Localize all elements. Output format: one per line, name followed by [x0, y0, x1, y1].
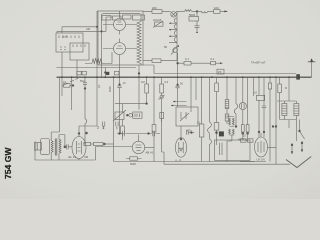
svg-text:TA: TA — [96, 126, 100, 129]
bottom rail left — [35, 151, 96, 160]
svg-text:0,1: 0,1 — [97, 84, 101, 88]
mains cord V — [286, 157, 311, 168]
resistor R9 — [160, 77, 164, 95]
trimmer C3 — [123, 15, 132, 19]
bottom rail lower — [164, 152, 290, 164]
wire coil top — [176, 11, 178, 16]
wire — [85, 52, 112, 64]
svg-text:U - P: U - P — [175, 159, 182, 163]
pot P1 — [113, 103, 148, 140]
wire — [268, 147, 277, 149]
output transformer T3 — [51, 139, 61, 156]
resistor R16 — [83, 142, 114, 145]
tube V3 — [132, 135, 154, 154]
wire — [62, 52, 77, 77]
wire squiggle — [234, 77, 237, 127]
lamp LA1 — [171, 12, 177, 18]
wire — [195, 77, 197, 100]
switch contacts — [59, 36, 79, 39]
trimmer C2 — [113, 16, 122, 20]
resistor R15 — [152, 77, 156, 161]
wire mains tap — [295, 120, 297, 142]
wire — [253, 77, 255, 96]
trimmer arrow — [153, 21, 163, 28]
resistor R12 — [257, 77, 265, 137]
choke L5 — [202, 11, 208, 13]
svg-text:4F7n: 4F7n — [238, 138, 244, 142]
svg-text:5000: 5000 — [130, 162, 136, 166]
tuner box S1 — [56, 33, 83, 52]
svg-text:5000: 5000 — [108, 86, 112, 92]
resistor R11 — [214, 77, 224, 145]
svg-text:0,1: 0,1 — [185, 57, 189, 61]
resistor R13 — [268, 77, 271, 161]
mains cord prongs — [291, 141, 303, 154]
tuner box S2 — [70, 43, 89, 60]
svg-text:UY 1N: UY 1N — [257, 158, 265, 162]
svg-text:TB: TB — [102, 125, 106, 129]
IF coil ladder — [225, 77, 229, 124]
antenna symbol — [308, 58, 316, 77]
rail R3 — [143, 65, 296, 74]
wire — [140, 14, 142, 65]
svg-text:AB 41: AB 41 — [146, 151, 154, 155]
svg-text:ZF: ZF — [218, 70, 222, 74]
tapped coil L3 — [169, 16, 177, 57]
heater ladder H1 — [277, 101, 299, 120]
bus nodes — [61, 76, 299, 78]
wire — [79, 77, 97, 126]
junction blob — [106, 72, 109, 75]
node — [104, 72, 106, 74]
resistor R17 — [126, 157, 141, 160]
rail R2 — [177, 62, 223, 64]
wire — [62, 27, 97, 33]
svg-text:1M: 1M — [141, 80, 145, 84]
resistor R2 — [152, 10, 162, 14]
resistor R14 — [278, 77, 282, 101]
switch contacts — [60, 47, 66, 50]
svg-text:EL 11: EL 11 — [69, 155, 77, 159]
switch contacts — [73, 45, 85, 48]
top rail wire — [143, 10, 228, 12]
capacitor C12 — [262, 77, 266, 137]
switch S3 — [85, 119, 88, 144]
wire — [65, 146, 67, 148]
bottom rail mid — [114, 161, 266, 163]
wire corner B — [102, 14, 104, 77]
svg-text:5000: 5000 — [189, 13, 196, 17]
wire — [71, 77, 73, 110]
svg-text:0,1: 0,1 — [197, 121, 201, 125]
wire — [240, 161, 255, 163]
svg-text:754 GW: 754 GW — [3, 147, 13, 179]
svg-text:50: 50 — [164, 45, 168, 49]
arrow to antenna — [225, 10, 228, 12]
electrolytic C11 — [239, 77, 246, 139]
wire — [59, 135, 65, 147]
svg-text:AM: AM — [86, 27, 90, 31]
svg-text:UM: UM — [84, 155, 88, 159]
resistor R6 — [211, 61, 216, 64]
wire speaker feed — [51, 77, 59, 140]
wire — [96, 147, 133, 161]
tube V4 — [175, 126, 186, 157]
AVC tap arrows — [171, 101, 187, 107]
inductor L4 — [185, 10, 192, 12]
wire corner C — [106, 17, 112, 31]
coil L2 — [92, 59, 102, 64]
tube V1a triode — [114, 19, 126, 35]
IF filter box ZF — [217, 69, 224, 74]
TA pickup input — [171, 45, 179, 55]
resistor R10 — [199, 77, 204, 161]
trimmer C5 — [189, 11, 200, 33]
capacitor C13 — [126, 112, 142, 118]
wire — [190, 77, 192, 112]
wire — [272, 77, 277, 164]
label box — [115, 71, 119, 75]
vertical from R1 — [104, 68, 106, 78]
shield box U1 — [98, 11, 143, 65]
wire — [57, 31, 106, 33]
wire — [288, 77, 290, 101]
wire — [288, 120, 290, 128]
svg-text:50p: 50p — [80, 79, 85, 83]
wire tube bottom — [78, 159, 80, 161]
svg-text:R: R — [285, 86, 287, 90]
resistor R20 — [246, 77, 249, 139]
resistor R8 — [145, 77, 149, 103]
svg-text:TA+EF+aT: TA+EF+aT — [251, 61, 266, 65]
trimmer C1 — [102, 16, 111, 21]
svg-text:0,1: 0,1 — [63, 80, 67, 84]
wire — [103, 11, 139, 77]
node — [196, 11, 198, 13]
svg-text:200: 200 — [152, 6, 157, 10]
wire — [61, 77, 63, 96]
IF box F2 — [176, 107, 198, 126]
svg-text:2x0,05: 2x0,05 — [153, 18, 162, 22]
trimmer label box — [155, 22, 164, 26]
label box — [82, 71, 86, 75]
node — [64, 146, 66, 148]
wire w switch — [208, 77, 212, 161]
capacitor C7 — [117, 77, 121, 133]
tube V1b triode — [114, 39, 126, 55]
labels between rails — [77, 71, 81, 75]
svg-text:0,3: 0,3 — [165, 80, 169, 84]
node — [72, 85, 74, 87]
coupling caps row — [117, 131, 160, 136]
trimmer C4 — [133, 15, 145, 20]
band switch linkage — [64, 78, 78, 85]
wire TA down — [177, 53, 179, 78]
tube V5 rectifier — [255, 133, 268, 157]
switch S4 — [300, 120, 305, 140]
node — [96, 26, 98, 28]
trimmer C8 — [159, 95, 165, 122]
wire long — [113, 77, 115, 161]
svg-text:4F7n: 4F7n — [186, 129, 192, 133]
svg-text:100: 100 — [214, 6, 219, 10]
svg-text:0,1: 0,1 — [211, 57, 215, 61]
rail to coil bottom — [143, 57, 177, 61]
speaker SP1 — [35, 139, 50, 155]
box T4 — [215, 140, 251, 160]
inner top wire — [103, 13, 140, 15]
resistor R21 — [160, 113, 164, 119]
svg-text:2x16: 2x16 — [62, 35, 68, 39]
TA sockets — [103, 122, 119, 130]
resistor R4 — [152, 59, 161, 63]
coil L1 — [137, 22, 141, 64]
capacitor C10 — [187, 130, 195, 134]
wire — [138, 77, 140, 109]
capacitor C14 — [67, 144, 72, 149]
wire corner A — [97, 11, 98, 77]
resistor boxes left of V5 — [241, 139, 254, 142]
resistor R7 — [62, 84, 72, 88]
capacitor C6 — [83, 77, 87, 118]
fuse blob on bus — [296, 74, 300, 79]
resistor R5 — [184, 61, 191, 65]
node — [101, 31, 103, 33]
main bus — [57, 76, 312, 78]
capacitor C9 — [175, 77, 179, 107]
rail R1 — [57, 67, 137, 69]
IF transformer T2 — [227, 117, 234, 162]
output tube V2 — [72, 126, 86, 159]
resistor R3 — [214, 10, 221, 14]
